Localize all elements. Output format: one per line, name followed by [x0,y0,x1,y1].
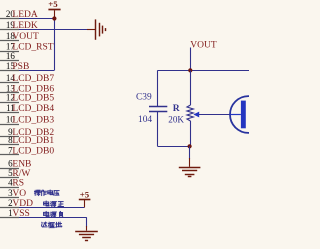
potentiometer wiper arrow [193,112,199,118]
svg-text:LCD_DB5: LCD_DB5 [12,94,54,104]
pin 20 lead [0,18,19,20]
svg-text:LCD_DB4: LCD_DB4 [12,104,54,114]
svg-text:LCD_DB0: LCD_DB0 [12,146,54,156]
pin 7 lead [0,154,19,156]
pin 2 lead [0,207,19,209]
svg-text:LCD_RST: LCD_RST [12,43,53,53]
pin 1 lead [0,217,19,219]
svg-text:R/W: R/W [12,169,30,179]
svg-text:+5: +5 [48,0,58,9]
svg-text:LCD_DB3: LCD_DB3 [12,116,54,126]
capacitor C39 plates [149,106,167,108]
wire pin19 LEDK to ground [19,29,88,31]
svg-text:104: 104 [138,115,152,125]
wire pin2 VDD to +5 [19,207,85,209]
pin 11 lead [0,112,19,114]
wire pin1 VSS to ground [19,217,87,219]
ground GND right lead [189,158,191,167]
transistor Q1 gate bar [241,101,246,129]
power +5 bottom lead [84,200,86,208]
pin 8 lead [0,144,19,146]
pin 9 lead [0,136,19,138]
ground GND right-facing bars [95,19,97,39]
annotation VO note (operating voltage) [34,190,59,196]
wire VOUT horizontal [158,70,250,72]
power +5 top bar [48,9,60,11]
transistor Q1 gate wire [230,114,241,116]
pin 14 lead [0,82,19,84]
svg-text:VO: VO [12,189,26,199]
svg-text:RS: RS [12,179,24,189]
svg-text:VOUT: VOUT [12,32,39,42]
ground GND bottom-left bars [75,231,98,233]
pin 13 lead [0,92,19,94]
wire VOUT to potentiometer [190,70,192,105]
annotation frame ground note [41,222,61,228]
svg-text:C39: C39 [136,93,152,103]
wire to pin15 PSB [19,70,54,72]
potentiometer bottom lead [190,121,192,146]
wire C39 to ground junction [158,146,190,148]
pin 15 lead [0,70,19,72]
wire wiper to transistor [199,114,230,116]
svg-text:16: 16 [6,51,16,61]
ground GND bottom-left lead [86,226,88,231]
pin 10 lead [0,124,19,126]
wire VOUT down [190,48,192,71]
wire VSS down [86,217,88,227]
ground GND right bars [179,167,201,169]
wire C39 bottom lead [157,112,159,147]
transistor Q1 body circle [230,96,267,133]
svg-text:VOUT: VOUT [190,40,217,50]
pin 17 lead [0,51,19,53]
wire to C39 [157,70,159,106]
svg-text:LCD_DB1: LCD_DB1 [12,136,54,146]
pin 6 lead [0,168,19,170]
svg-text:20K: 20K [168,114,184,124]
annotation VDD note (power positive) [44,201,64,207]
svg-text:R: R [173,103,181,114]
pin 4 lead [0,187,19,189]
junction pot/cap ground node [188,144,192,148]
pin 12 lead [0,102,19,104]
junction at LEDA/+5 [52,16,56,20]
pin 5 lead [0,177,19,179]
pin 16 lead [0,60,19,62]
wire pin20 LEDA to +5 junction [19,18,54,20]
wire +5 junction down to PSB [54,19,56,71]
pin 19 lead [0,29,19,31]
power +5 top lead [54,10,56,18]
potentiometer R zigzag body [187,105,193,121]
annotation VSS note (power negative) [44,211,63,217]
power +5 bottom bar [79,199,91,201]
ground GND right-facing lead [87,29,95,31]
junction VOUT node [188,68,192,72]
svg-text:+5: +5 [80,189,90,199]
pin 18 lead [0,40,19,42]
pin 3 lead [0,197,19,199]
wire junction down [189,146,191,159]
svg-text:LCD_DB7: LCD_DB7 [12,74,54,84]
